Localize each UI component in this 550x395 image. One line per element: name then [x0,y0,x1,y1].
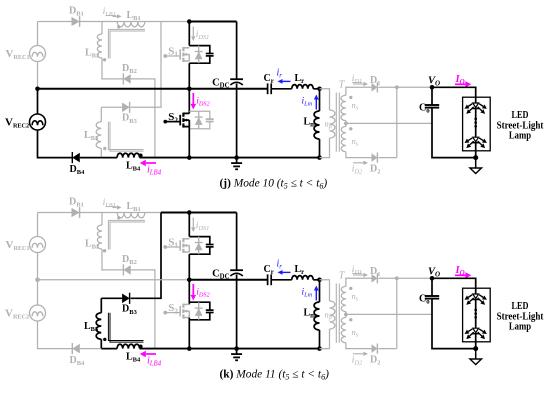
wire mid rail left [38,279,190,281]
dot L_B1 polarity [117,25,120,28]
wire V_REC2 top lead [37,89,39,114]
source V_REC1 [30,46,46,62]
source V_REC2 [30,305,46,321]
diode D2 [372,153,378,163]
inductor L_B4 [117,153,139,157]
source V_REC2 [30,114,46,130]
dot L_B1 polarity [117,216,120,219]
node bottom rail S2 [187,155,192,160]
wire V_REC1 top lead [37,213,39,237]
wire top rail bus (black) [189,21,236,23]
wire L_B3 to D_B3 [101,106,122,108]
inductor L_B1 [117,22,145,27]
label i_Lm with arrow [314,95,319,110]
wire V_REC2 top lead [37,280,39,305]
wire L_B3 bottom lead [100,339,102,348]
wire top rail (gray) [38,21,162,23]
transistor S1 [180,47,189,62]
core bracket L_B3/L_B4 [108,122,143,151]
wire L_B3 top lead [100,298,102,313]
diode D_B3 [122,102,130,113]
wire S1 gate lead [165,246,180,248]
wire L_m bottom lead [319,139,321,158]
node center tap [344,122,348,126]
wire L_B2 top lead [101,22,103,35]
wire S1 source lead [188,254,190,280]
ground (open) below LED [470,349,482,365]
wire D_B3 to top rail [131,213,161,299]
transformer secondary n_s (top) [346,87,372,95]
inductor L_B3 [96,122,101,148]
node V_O [430,276,435,281]
winding n_s bottom [341,126,346,151]
label i_DS1 with arrow [191,218,195,233]
svg-text:Lamp: Lamp [509,131,532,142]
dot L_B4 polarity [139,154,143,158]
snubber loop + capacitor S2 [189,111,213,129]
wire V_REC2 to D_B4 [38,321,73,349]
LED D_L1 [465,295,473,300]
wire S1 drain lead [188,22,190,46]
wire mid rail to C_r [189,279,267,281]
snubber loop + capacitor S1 [189,46,213,64]
label i_DS2 with arrow [191,284,197,301]
wire L_r to node [313,88,319,90]
diode D_B2 [123,264,130,275]
wire L_B2 to D_B2 [102,58,123,79]
node resonant bottom [317,346,322,351]
wire top rail bus (black) [161,212,237,214]
wire D1 to V_O [379,86,433,88]
wire V_REC2 to D_B4 [38,130,73,158]
diode D_B4 [72,343,80,354]
winding n_s top [341,95,346,120]
transformer secondary n_s (top) [346,278,372,286]
ground [231,349,242,361]
capacitor C_o [425,105,439,108]
wire primary bottom lead [320,138,330,158]
wire L_B3 to D_B3 [101,297,122,299]
dots LED string [474,118,477,121]
wire L_m bottom lead [319,330,321,349]
svg-text:Lamp: Lamp [509,322,532,333]
wire bottom rail to L_B4 [101,157,117,159]
wire L_B2 top lead [101,213,103,226]
wire L_B2 to D_B2 [102,249,123,270]
wire S2 gate lead [165,312,180,314]
node ground junction [234,346,239,351]
wire D_B3 to top rail [131,22,161,108]
wire C_o bottom / output return [432,108,476,158]
ground (open) below LED [470,158,482,174]
wire S2 source lead [188,318,190,349]
node top rail S1 [187,19,192,24]
wire secondary bottom lead [346,152,372,158]
dot n_s top polarity [349,287,352,290]
inductor L_m [314,111,319,139]
wire top rail to bus [161,21,189,23]
wire V_REC1 bottom lead [37,253,39,280]
LED lamp box [463,288,491,342]
winding n_s bottom [341,317,346,342]
wire D_B2 to bottom rail [131,270,155,349]
label i_DS1 with arrow [191,27,195,42]
wire D2 to join [379,157,397,159]
wire primary top lead [320,280,330,301]
wire V_O to LED lamp [432,87,476,97]
inductor L_B4 [117,344,139,348]
node LED return [473,155,478,160]
node ground junction [234,155,239,160]
label i_LB4 with arrow [140,160,156,166]
wire S2 source lead [188,127,190,158]
diode D_B1 [72,16,80,27]
label i_LB4 with arrow [140,351,156,357]
wire S2 drain lead [188,280,190,305]
inductor L_B2 [97,225,102,249]
diode D_B4 [72,152,80,163]
node rectifier join [395,85,399,89]
snubber loop + capacitor S1 [189,237,213,255]
wire rectifier join vertical [396,87,398,157]
wire C_DC bottom lead [236,84,238,158]
dot S2 gate [163,311,167,315]
diode D_B1 [72,207,80,218]
wire S1 gate lead [165,55,180,57]
dot L_B3 polarity [103,147,106,150]
wire C_o top lead [431,87,433,105]
capacitor C_DC [230,79,243,85]
wire center tap stub [345,312,347,318]
wire D1 to V_O [379,277,433,279]
node center tap [344,313,348,317]
node resonant top [317,87,322,92]
body diode S1 [195,237,203,255]
wire mid rail to C_r [189,88,267,90]
capacitor C_o [425,296,439,299]
dot S1 gate [163,54,167,58]
node resonant top [317,278,322,283]
transformer primary n_p [330,301,335,329]
LED D_L2 [465,138,473,143]
node source junction [35,87,40,92]
dots LED string [474,309,477,312]
wire S1 drain lead [188,213,190,237]
node resonant bottom [317,155,322,160]
node bottom rail S2 [187,346,192,351]
body diode S1 [195,46,203,64]
wire C_DC top lead [236,213,238,271]
dot L_B4 polarity [139,345,143,349]
dot S2 gate [163,120,167,124]
inductor L_B3 [96,313,101,339]
wire bottom rail (black) [140,157,320,159]
wire LED string [475,97,477,157]
dot L_B2 polarity [103,58,106,61]
wire S2 drain lead [188,89,190,114]
diode D1 [372,82,378,92]
diode D_B2 [123,73,130,84]
wire L_m top lead [319,280,321,302]
label i_DS2 with arrow [191,93,197,110]
label i_Lm with arrow [314,286,319,301]
wire V_REC1 bottom lead [37,62,39,89]
LED lamp box [463,97,491,151]
diode D1 [372,273,378,283]
dot n_s top polarity [349,96,352,99]
inductor L_B2 [97,34,102,58]
inductor L_r [292,276,313,280]
dot S1 gate [163,245,167,249]
LED D_L1 [465,104,473,109]
wire C_DC top lead [236,22,238,80]
diode D2 [372,344,378,354]
wire S2 gate lead [165,121,180,123]
wire C_o bottom / output return [432,299,476,349]
wire D_B4 to L_B3 leg [80,348,102,350]
node switch midpoint [187,278,192,283]
winding n_s top [341,286,346,311]
capacitor C_r [268,83,272,94]
wire rectifier join vertical [396,278,398,348]
wire primary bottom lead [320,329,330,349]
wire mid rail left [38,88,190,90]
wire L_r to node [313,279,319,281]
wire D_B2 to bottom rail [131,79,155,158]
ground [231,158,242,170]
transformer core T [336,93,339,152]
node V_O [430,85,435,90]
svg-text:(j) Mode 10 (t5 ≤ t < t6): (j) Mode 10 (t5 ≤ t < t6) [220,178,328,191]
node switch midpoint [187,87,192,92]
dot n_s bottom polarity [349,127,352,130]
wire S1 source lead [188,63,190,89]
body diode S2 [195,302,203,320]
wire bottom rail (black) [140,348,320,350]
wire C_r to L_r [271,88,292,90]
inductor L_m [314,302,319,330]
core bracket L_B1/L_B2 [108,29,145,58]
wire D2 to join [379,348,397,350]
wire LED string [475,288,477,348]
node rectifier join [395,276,399,280]
wire C_DC bottom lead [236,275,238,349]
wire V_REC1 top lead [37,22,39,46]
wire L_B3 bottom lead [100,148,102,157]
dot L_B3 polarity [103,338,106,341]
node top rail S1 [187,210,192,215]
snubber loop + capacitor S2 [189,302,213,320]
transformer core T [336,284,339,343]
dot n_s bottom polarity [349,318,352,321]
wire bottom rail to L_B4 [101,348,117,350]
inductor L_B1 [117,213,145,218]
wire top rail (gray) [38,212,162,214]
transistor S2 [180,304,189,319]
body diode S2 [195,111,203,129]
core bracket L_B3/L_B4 [108,313,143,342]
capacitor C_DC [230,270,243,276]
wire primary top lead [320,89,330,110]
transistor S2 [180,113,189,128]
source V_REC1 [30,237,46,253]
node LED return [473,346,478,351]
transformer primary n_p [330,110,335,138]
inductor L_r [292,85,313,89]
wire C_o top lead [431,278,433,296]
wire D_B4 to L_B3 leg [80,157,102,159]
wire V_O to LED lamp [432,278,476,288]
wire center tap stub [345,121,347,127]
node source junction [35,278,40,283]
LED D_L2 [465,329,473,334]
transistor S1 [180,238,189,253]
core bracket L_B1/L_B2 [108,220,145,249]
svg-text:(k) Mode 11 (t5 ≤ t < t6): (k) Mode 11 (t5 ≤ t < t6) [220,369,330,382]
wire center tap to output [346,313,432,315]
wire L_m top lead [319,89,321,111]
wire L_B3 top lead [100,107,102,122]
wire C_r to L_r [271,279,292,281]
dot L_B2 polarity [103,249,106,252]
diode D_B3 [122,293,130,304]
wire secondary bottom lead [346,343,372,349]
capacitor C_r [268,274,272,285]
wire center tap to output [346,122,432,124]
